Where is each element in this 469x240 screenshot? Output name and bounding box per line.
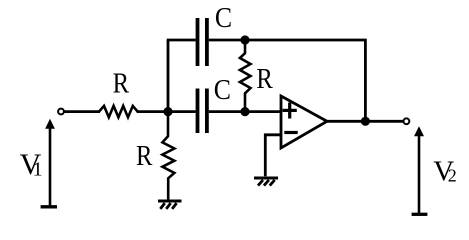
resistor R3 (vertical between nodes B and C) <box>240 40 251 112</box>
wire node A up <box>167 40 170 112</box>
wire node A to C2 <box>168 110 196 113</box>
resistor R1 <box>99 106 138 117</box>
label C1 <box>215 2 232 33</box>
svg-text:2: 2 <box>448 166 457 186</box>
label R3 <box>256 64 273 95</box>
V1 reference bar <box>41 205 57 208</box>
capacitor C1 <box>196 18 200 66</box>
input terminal V1 <box>58 109 64 115</box>
op-amp plus input marker <box>283 109 297 112</box>
ground (R2) <box>158 201 182 209</box>
wire C2 to op-amp noninverting input <box>209 110 281 113</box>
ground (op-amp inverting input) <box>254 178 278 186</box>
svg-text:C: C <box>214 74 231 105</box>
svg-text:R: R <box>136 140 153 171</box>
label C2 <box>214 74 231 105</box>
node D (output junction) <box>361 117 370 126</box>
V2 reference bar <box>412 213 428 216</box>
feedback wire top <box>245 40 365 121</box>
label V2 <box>433 155 454 187</box>
op-amp U1 <box>281 96 327 148</box>
wire op-amp output <box>326 120 403 123</box>
output terminal V2 <box>404 118 410 124</box>
svg-text:C: C <box>215 2 232 33</box>
V1 arrow <box>49 127 52 206</box>
label R1 <box>113 68 130 99</box>
V2 arrow <box>418 135 421 214</box>
node B (top junction) <box>240 35 249 44</box>
wire top-left to C1 <box>167 39 196 42</box>
label R2 <box>136 140 153 171</box>
wire C1 to node B <box>209 39 245 42</box>
svg-text:R: R <box>113 68 130 99</box>
svg-text:1: 1 <box>33 159 43 181</box>
wire R1 to node A <box>137 110 168 113</box>
label V1 <box>20 148 42 181</box>
wire input to R1 <box>65 110 101 113</box>
wire inverting input to ground <box>265 135 281 176</box>
svg-text:R: R <box>256 64 273 95</box>
capacitor C2 <box>196 89 200 134</box>
node C (middle junction) <box>240 107 249 116</box>
resistor R2 (vertical to ground) <box>162 112 174 200</box>
node A (junction) <box>163 107 172 116</box>
op-amp minus input marker <box>284 131 297 134</box>
